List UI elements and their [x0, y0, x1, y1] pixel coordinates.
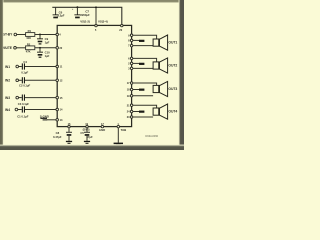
capacitor C3 [18, 95, 30, 106]
wire [117, 128, 119, 143]
node B junction [39, 47, 41, 49]
wire [133, 39, 140, 41]
speaker OUT3 [153, 81, 177, 96]
capacitor C2 [19, 77, 31, 87]
wire [133, 58, 157, 62]
pin 23 [130, 116, 132, 118]
pin 19b [130, 95, 132, 97]
svg-text:IN2: IN2 [5, 79, 10, 83]
svg-text:D93AU060: D93AU060 [145, 134, 158, 138]
ground [40, 118, 47, 121]
IC U1 outline [57, 25, 131, 126]
pin 8 [130, 39, 132, 41]
wire [133, 95, 153, 97]
resistor R2 [26, 42, 35, 53]
svg-text:IN1: IN1 [5, 65, 10, 69]
wire [133, 62, 140, 64]
pin 24 [130, 110, 132, 112]
svg-text:MUTE: MUTE [3, 46, 13, 50]
pin 3 [130, 67, 132, 69]
capacitor C7 [72, 6, 90, 18]
wire [133, 111, 140, 113]
svg-text:C2 0.1µF: C2 0.1µF [19, 83, 31, 87]
wire [35, 47, 56, 49]
svg-text:R2: R2 [27, 42, 31, 46]
wire [133, 116, 153, 118]
svg-text:VS(3-4): VS(3-4) [98, 20, 108, 24]
ground [114, 143, 123, 146]
pin 20 [121, 24, 123, 26]
pin 11 [56, 65, 59, 68]
wire: +VS top rail [52, 7, 122, 25]
svg-text:1µF: 1µF [45, 54, 50, 58]
pin 1 TAB [117, 125, 119, 127]
svg-text:10K: 10K [26, 36, 31, 40]
svg-text:47K: 47K [26, 50, 31, 54]
svg-text:0.47µF: 0.47µF [53, 135, 62, 139]
speaker OUT1 [153, 35, 177, 50]
pin 21 [130, 104, 132, 106]
svg-text:C1 0.1µF: C1 0.1µF [17, 115, 29, 119]
svg-text:IN3: IN3 [5, 96, 10, 100]
svg-text:TAB: TAB [121, 128, 127, 132]
capacitor C8 [53, 128, 72, 139]
wire [133, 83, 157, 85]
pin 6 [130, 57, 132, 59]
page background [0, 0, 184, 150]
pin 15 [56, 96, 59, 99]
svg-text:1µF: 1µF [45, 40, 50, 44]
pin 17 HSD [101, 125, 103, 127]
resistor R1 [26, 29, 35, 40]
speaker OUT4 [153, 104, 177, 119]
capacitor C9 [37, 35, 50, 45]
svg-text:3.3µF: 3.3µF [57, 13, 64, 17]
wire [133, 45, 153, 47]
svg-text:R1: R1 [28, 29, 32, 33]
capacitor C4 [21, 60, 28, 74]
svg-text:VS(1-2): VS(1-2) [80, 20, 90, 24]
svg-text:0.1µF: 0.1µF [21, 71, 28, 75]
pin 17b [130, 82, 132, 84]
node A junction [39, 34, 41, 36]
pin 16 [68, 125, 70, 127]
ground [66, 136, 72, 144]
pin 4 [56, 33, 59, 36]
pin 9 [130, 34, 132, 36]
svg-text:OUT3: OUT3 [168, 87, 177, 91]
pin 22 [56, 47, 59, 50]
wire [133, 105, 157, 108]
svg-text:C5: C5 [80, 131, 84, 135]
wire [47, 119, 56, 121]
capacitor C5 [80, 128, 93, 140]
pin 12 [56, 79, 59, 82]
pin 13 [56, 119, 59, 122]
svg-text:IN4: IN4 [5, 108, 10, 112]
svg-text:OUT2: OUT2 [168, 63, 177, 67]
capacitor C1 [17, 106, 29, 118]
svg-text:OUT1: OUT1 [168, 40, 177, 44]
pin 19 [86, 125, 88, 127]
wire [133, 89, 140, 91]
capacitor C6 [53, 7, 65, 18]
wire [35, 34, 56, 36]
wire: VS(1-2) stub [95, 7, 97, 25]
wire [16, 47, 25, 49]
wire [133, 35, 157, 39]
ground [84, 136, 90, 144]
svg-text:OUT4: OUT4 [168, 109, 177, 113]
pin 5 [95, 24, 97, 26]
svg-text:ST-BY: ST-BY [3, 33, 13, 37]
svg-text:2200µF: 2200µF [80, 13, 90, 17]
pin 2 [130, 62, 132, 64]
wire [17, 34, 26, 36]
pin 14 [56, 108, 59, 111]
wire [133, 67, 153, 69]
svg-text:HSD: HSD [99, 128, 105, 132]
capacitor C10 [37, 48, 50, 58]
speaker OUT2 [153, 58, 177, 73]
pin 7 [130, 44, 132, 46]
svg-text:C4: C4 [23, 60, 27, 64]
svg-text:C3 0.1µF: C3 0.1µF [18, 102, 30, 106]
pin 18 [130, 88, 132, 90]
